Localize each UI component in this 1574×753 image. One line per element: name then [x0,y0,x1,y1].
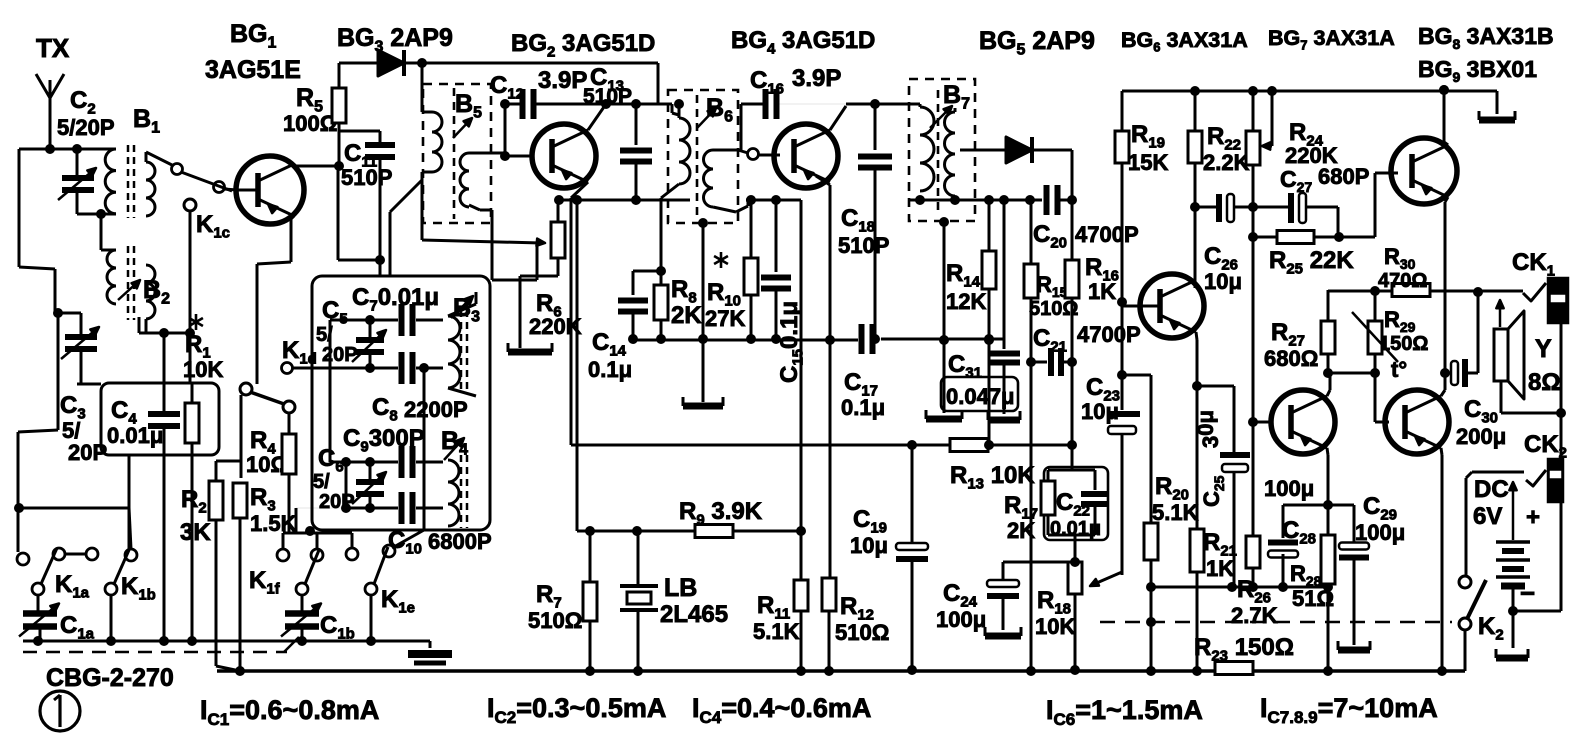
svg-text:Y: Y [1535,335,1552,363]
svg-text:t°: t° [1391,357,1407,382]
svg-text:0.1μ: 0.1μ [588,357,632,382]
svg-text:2K: 2K [1007,518,1035,543]
svg-text:BG6 3AX31A: BG6 3AX31A [1121,28,1248,55]
svg-text:1K: 1K [1088,279,1116,304]
svg-text:10μ: 10μ [1204,269,1242,294]
svg-text:2200P: 2200P [404,397,468,422]
svg-text:BG5 2AP9: BG5 2AP9 [979,27,1095,59]
svg-text:3K: 3K [180,519,211,546]
svg-text:BG4 3AG51D: BG4 3AG51D [731,27,875,57]
svg-text:2.2K: 2.2K [1203,150,1250,175]
svg-text:LB: LB [664,574,697,602]
svg-text:1K: 1K [1206,556,1234,581]
svg-text:R13 10K: R13 10K [950,462,1035,492]
svg-text:51Ω: 51Ω [1292,586,1334,611]
svg-text:220K: 220K [529,314,582,339]
svg-text:510P: 510P [583,85,632,108]
svg-text:2L465: 2L465 [660,601,728,628]
svg-text:27K: 27K [705,306,745,331]
svg-text:TX: TX [36,33,70,63]
svg-text:100μ: 100μ [1264,476,1314,501]
svg-text:20P: 20P [322,344,358,366]
svg-text:3.9P: 3.9P [538,67,587,94]
svg-text:680P: 680P [1318,164,1369,189]
svg-text:BG3 2AP9: BG3 2AP9 [337,24,453,56]
svg-text:DC: DC [1474,476,1509,503]
svg-text:510Ω: 510Ω [835,620,889,645]
svg-text:BG8 3AX31B: BG8 3AX31B [1418,23,1554,52]
svg-text:2.7K: 2.7K [1231,603,1278,628]
svg-text:4700P: 4700P [1075,222,1139,247]
svg-text:6800P: 6800P [428,529,492,554]
svg-text:10K: 10K [183,357,223,382]
svg-text:3AG51E: 3AG51E [205,56,301,84]
svg-text:CBG-2-270: CBG-2-270 [46,664,174,692]
svg-text:100μ: 100μ [936,607,986,632]
svg-text:5/20P: 5/20P [57,115,115,140]
svg-text:150Ω: 150Ω [1379,333,1428,355]
svg-text:4700P: 4700P [1077,322,1141,347]
svg-text:510P: 510P [341,165,392,190]
svg-text:BG2 3AG51D: BG2 3AG51D [511,30,655,60]
svg-text:3.9P: 3.9P [792,65,841,92]
svg-text:5/: 5/ [313,471,330,493]
svg-text:R23 150Ω: R23 150Ω [1194,634,1294,664]
svg-text:10μ: 10μ [850,533,888,558]
svg-text:10K: 10K [1035,614,1075,639]
svg-text:BG7 3AX31A: BG7 3AX31A [1268,26,1395,53]
svg-text:8Ω: 8Ω [1528,369,1561,396]
svg-text:−: − [1520,578,1535,608]
svg-text:12K: 12K [946,289,986,314]
svg-text:5.1K: 5.1K [753,619,800,644]
svg-text:510P: 510P [838,233,889,258]
svg-text:6V: 6V [1473,503,1502,530]
svg-text:680Ω: 680Ω [1264,346,1318,371]
svg-text:15K: 15K [1128,150,1168,175]
svg-text:5.1K: 5.1K [1152,500,1199,525]
svg-text:R25 22K: R25 22K [1269,247,1354,277]
svg-text:R9 3.9K: R9 3.9K [679,498,763,528]
svg-text:0.1μ: 0.1μ [841,395,885,420]
svg-text:+: + [1526,504,1540,531]
svg-text:200μ: 200μ [1456,424,1506,449]
svg-text:C70.01μ: C70.01μ [352,284,439,314]
svg-text:470Ω: 470Ω [1378,270,1427,292]
svg-text:510Ω: 510Ω [528,608,582,633]
svg-text:100Ω: 100Ω [283,111,337,136]
svg-text:2K: 2K [671,302,702,329]
svg-text:BG9 3BX01: BG9 3BX01 [1418,56,1537,85]
